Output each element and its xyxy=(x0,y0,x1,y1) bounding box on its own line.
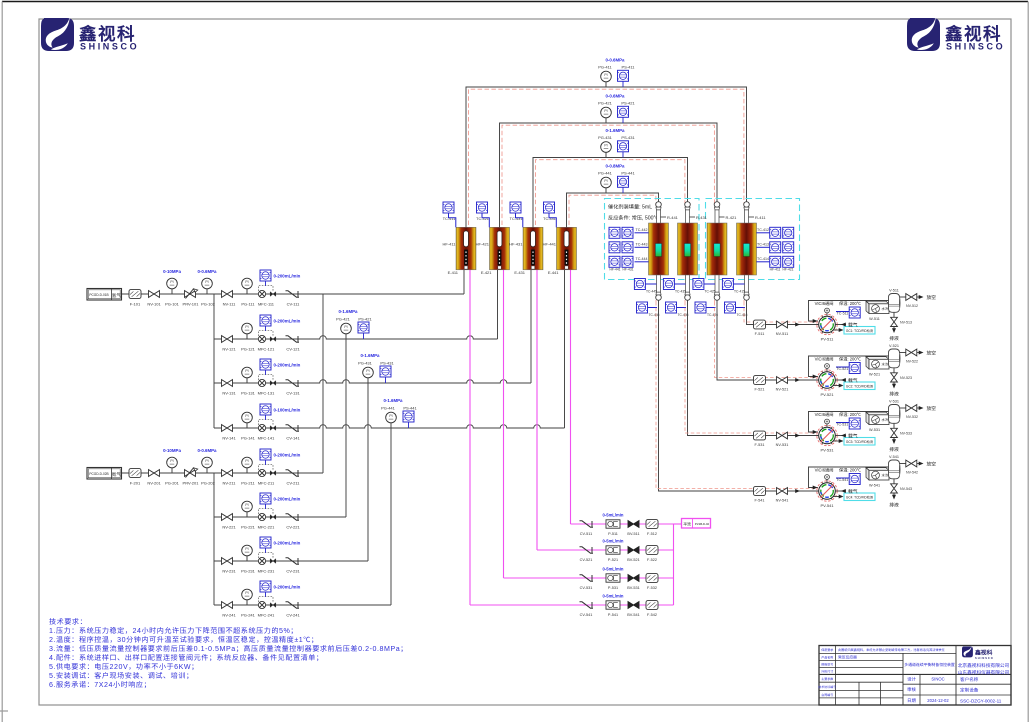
border frame xyxy=(2,1,1028,3)
wire branch 121 xyxy=(214,336,498,339)
svg-text:E-431: E-431 xyxy=(514,270,525,276)
MFC-141 mass flow controller xyxy=(258,420,275,432)
wire transfer loop E-411 to R-411 xyxy=(466,87,747,227)
flange bottom R-441 xyxy=(656,292,662,300)
gauge PG-131 xyxy=(246,378,248,383)
reactor R-421 furnace body xyxy=(707,223,727,275)
svg-text:0-200mL/min: 0-200mL/min xyxy=(274,497,301,503)
svg-text:MFC-141: MFC-141 xyxy=(258,436,275,442)
svg-text:TC-442: TC-442 xyxy=(636,228,648,233)
controller icon FIC-231 xyxy=(260,537,271,548)
gauge PG-102 xyxy=(206,289,208,294)
label R-421 xyxy=(719,216,725,218)
regulator PRV-201 xyxy=(185,468,198,478)
svg-text:0-200mL/min: 0-200mL/min xyxy=(274,274,301,280)
condenser W-541 xyxy=(866,468,889,480)
svg-text:PCGD-D-02B: PCGD-D-02B xyxy=(89,471,108,476)
svg-text:VICI6通阀: VICI6通阀 xyxy=(815,357,834,363)
filter F-531 xyxy=(754,431,766,440)
controller icon FIC-131 xyxy=(260,359,271,370)
flow arrow xyxy=(795,378,800,382)
valve NV-241 xyxy=(222,602,233,609)
svg-text:F-522: F-522 xyxy=(647,558,657,563)
svg-text:TC-414: TC-414 xyxy=(757,257,769,262)
svg-text:HF-431: HF-431 xyxy=(623,267,634,272)
TC icon stack left xyxy=(609,227,620,238)
svg-text:PG-121: PG-121 xyxy=(241,347,256,353)
svg-text:审核: 审核 xyxy=(907,687,916,693)
flow arrow xyxy=(795,489,800,493)
svg-text:GC4: TCD/FID检测: GC4: TCD/FID检测 xyxy=(846,494,873,499)
valve NV-533 drain xyxy=(893,423,895,428)
svg-text:0-1.6MPa: 0-1.6MPa xyxy=(605,128,625,134)
svg-text:PG-241: PG-241 xyxy=(241,613,256,619)
svg-text:MFC-221: MFC-221 xyxy=(258,525,275,531)
svg-text:TC-413: TC-413 xyxy=(757,242,769,247)
label R-411 xyxy=(749,216,755,218)
title block logo xyxy=(962,645,973,657)
thermocouple icon TC-416 xyxy=(725,302,736,313)
logo top-right xyxy=(907,14,940,51)
svg-text:F-542: F-542 xyxy=(647,613,657,618)
pump P-531 xyxy=(606,574,620,582)
svg-text:0-10MPa: 0-10MPa xyxy=(163,448,181,454)
reactor R-441 furnace body xyxy=(649,223,669,275)
svg-text:排液: 排液 xyxy=(889,446,899,453)
svg-text:0-1.6MPa: 0-1.6MPa xyxy=(383,398,403,404)
svg-text:R-441: R-441 xyxy=(667,215,679,221)
svg-text:R-431: R-431 xyxy=(696,215,708,221)
valve NV-521 xyxy=(777,377,788,384)
thermocouple icon TC-446 xyxy=(637,302,648,313)
wire effluent 441 to GC4 xyxy=(659,300,819,491)
svg-text:水冷: 水冷 xyxy=(882,417,889,422)
svg-text:0-200mL/min: 0-200mL/min xyxy=(274,585,301,591)
svg-text:W-511: W-511 xyxy=(869,317,880,322)
svg-text:CV-131: CV-131 xyxy=(286,391,300,397)
svg-text:MFC-211: MFC-211 xyxy=(258,481,275,487)
temperature controller TC-411 xyxy=(443,202,454,213)
svg-text:TC-443: TC-443 xyxy=(636,242,648,247)
pressure switch PS-431 on branch xyxy=(380,366,391,377)
svg-text:PV-541: PV-541 xyxy=(820,503,834,509)
svg-text:BV-511: BV-511 xyxy=(627,532,639,537)
catalyst zone box left xyxy=(605,199,700,280)
svg-text:水冷: 水冷 xyxy=(882,362,889,367)
svg-text:0-0.8MPa: 0-0.8MPa xyxy=(605,164,625,170)
svg-text:NV-211: NV-211 xyxy=(222,481,236,487)
valve BV-521 xyxy=(628,547,639,554)
carrier gas in xyxy=(835,324,846,326)
flange top R-431 xyxy=(685,202,691,210)
six-port valve PV-521 xyxy=(817,364,837,391)
MFC-211 mass flow controller xyxy=(258,465,275,477)
wire gas riser to E-431 xyxy=(530,270,532,383)
svg-text:主要参数: 主要参数 xyxy=(821,677,833,681)
title block table xyxy=(819,646,1011,706)
thermocouple icon TC-425 xyxy=(693,279,704,290)
wire branch 231 xyxy=(214,560,368,562)
svg-text:保密要求: 保密要求 xyxy=(821,648,833,652)
gauge PG-211 xyxy=(246,468,248,473)
svg-text:0-5mL/min: 0-5mL/min xyxy=(603,567,624,573)
svg-text:VICI6通阀: VICI6通阀 xyxy=(815,301,834,307)
svg-text:SHINSCO: SHINSCO xyxy=(80,40,139,53)
svg-text:NV-513: NV-513 xyxy=(900,321,912,326)
svg-text:氢气: 氢气 xyxy=(112,293,122,299)
svg-text:产品名称: 产品名称 xyxy=(821,656,833,660)
pump source box PLSB-D-02 xyxy=(682,519,711,529)
wire transfer loop E-421 to R-421 xyxy=(500,123,718,227)
svg-text:载气: 载气 xyxy=(848,488,858,495)
wire pump line 2 xyxy=(537,549,674,551)
svg-text:客户名称: 客户名称 xyxy=(960,677,979,683)
wire gas riser to E-421 xyxy=(497,270,499,339)
svg-text:CV-111: CV-111 xyxy=(287,302,301,308)
flange bottom R-431 xyxy=(685,292,691,300)
svg-text:CV-221: CV-221 xyxy=(286,525,300,531)
thermocouple icon TC-436 xyxy=(666,302,677,313)
svg-text:PLSB-D-02: PLSB-D-02 xyxy=(695,522,710,526)
svg-text:常压反应器: 常压反应器 xyxy=(838,655,857,661)
svg-text:保温: 200℃: 保温: 200℃ xyxy=(839,412,861,418)
filter F-532 xyxy=(646,574,658,583)
svg-text:2024-12-02: 2024-12-02 xyxy=(927,698,949,704)
wire pump line 1 xyxy=(571,523,674,525)
valve NV-531 xyxy=(777,432,788,439)
svg-text:0-0.6MPa: 0-0.6MPa xyxy=(197,448,217,454)
svg-text:山东鑫视科仪器有限公司: 山东鑫视科仪器有限公司 xyxy=(958,670,1010,676)
controller icon FIC-241 xyxy=(260,581,271,592)
svg-text:PG-111: PG-111 xyxy=(241,302,255,308)
svg-text:PG-441: PG-441 xyxy=(381,406,396,412)
svg-text:日期: 日期 xyxy=(907,698,916,704)
svg-text:HF-421: HF-421 xyxy=(783,267,794,272)
svg-text:MFC-241: MFC-241 xyxy=(258,613,275,619)
svg-text:E-441: E-441 xyxy=(548,270,559,276)
MFC-241 mass flow controller xyxy=(258,597,275,609)
controller icon FIC-221 xyxy=(260,493,271,504)
wire pump line 3 xyxy=(504,577,674,579)
GC3 detector label xyxy=(834,440,841,442)
svg-text:MFC-111: MFC-111 xyxy=(258,302,275,308)
wire riser x=391 xyxy=(390,428,392,605)
svg-text:PG-201: PG-201 xyxy=(165,481,180,487)
reactor R-431 furnace body xyxy=(678,223,698,275)
svg-text:CV-511: CV-511 xyxy=(580,532,592,537)
reactor R-441 tube xyxy=(657,203,661,299)
logo top-left xyxy=(41,14,74,51)
valve BV-511 xyxy=(628,521,639,528)
svg-text:VICI6通阀: VICI6通阀 xyxy=(815,412,834,418)
check valve CV-131 xyxy=(286,380,300,386)
svg-text:TC-412: TC-412 xyxy=(757,228,769,233)
svg-text:BV-521: BV-521 xyxy=(627,558,639,563)
valve NV-541 xyxy=(777,488,788,495)
svg-text:BV-541: BV-541 xyxy=(627,613,639,618)
svg-text:0-0.6MPa: 0-0.6MPa xyxy=(197,269,217,275)
valve BV-531 xyxy=(628,575,639,582)
thermocouple icon TC-445 xyxy=(634,279,645,290)
svg-text:0-5mL/min: 0-5mL/min xyxy=(603,513,624,519)
svg-text:NV-523: NV-523 xyxy=(900,376,912,381)
valve NV-522 vent xyxy=(899,352,906,354)
source box PCGD-D-01B hydrogen xyxy=(87,289,122,301)
gauge PG-421 on branch xyxy=(345,334,347,339)
svg-text:TC-416: TC-416 xyxy=(737,312,748,317)
svg-text:载气: 载气 xyxy=(848,432,858,439)
svg-text:NV-231: NV-231 xyxy=(222,569,236,575)
pressure switch PS-441 loop xyxy=(618,176,629,187)
controller icon FIC-141 xyxy=(260,404,271,415)
pressure switch PS-441 on branch xyxy=(403,411,414,422)
flange bottom R-421 xyxy=(714,292,720,300)
svg-text:HF-431: HF-431 xyxy=(509,242,523,248)
svg-text:W-531: W-531 xyxy=(869,428,880,433)
gauge PG-431 on branch xyxy=(367,378,369,383)
wire liquid feed riser E-431 xyxy=(536,270,538,550)
svg-text:PS-431: PS-431 xyxy=(380,361,394,367)
controller TC-521 xyxy=(849,363,860,374)
svg-text:TC-436: TC-436 xyxy=(678,312,689,317)
gauge PG-241 xyxy=(246,600,248,605)
svg-text:NV-532: NV-532 xyxy=(906,415,918,420)
valve NV-513 drain xyxy=(893,312,895,317)
filter F-512 xyxy=(646,520,658,529)
flange top R-421 xyxy=(714,202,720,210)
valve NV-101 xyxy=(149,291,160,298)
node manifold B xyxy=(213,473,215,605)
pump P-511 xyxy=(606,520,620,528)
valve NV-512 vent xyxy=(899,296,906,298)
svg-text:合同编号: 合同编号 xyxy=(821,693,833,697)
svg-text:6.服务承诺：7X24小时响应；: 6.服务承诺：7X24小时响应； xyxy=(49,680,151,690)
svg-text:CV-521: CV-521 xyxy=(580,558,593,563)
svg-text:保温: 200℃: 保温: 200℃ xyxy=(839,357,861,363)
svg-text:PG-231: PG-231 xyxy=(241,569,256,575)
svg-text:0-10MPa: 0-10MPa xyxy=(163,269,181,275)
svg-text:GC2: TCD/FID检测: GC2: TCD/FID检测 xyxy=(846,383,873,388)
svg-text:PRV-201: PRV-201 xyxy=(183,481,200,487)
svg-text:0-5mL/min: 0-5mL/min xyxy=(603,539,624,545)
svg-text:F-511: F-511 xyxy=(755,332,765,337)
svg-text:NV-512: NV-512 xyxy=(906,304,918,309)
svg-text:TC-444: TC-444 xyxy=(636,257,648,262)
svg-text:NV-511: NV-511 xyxy=(776,332,788,337)
furnace HF-421 / evaporator E-421 xyxy=(490,227,510,269)
wire transfer loop E-441 to R-441 xyxy=(567,193,659,227)
svg-text:TC-541: TC-541 xyxy=(836,478,848,483)
svg-text:NV-131: NV-131 xyxy=(222,391,236,397)
svg-text:F-512: F-512 xyxy=(647,532,657,537)
pressure switch PS-421 loop xyxy=(618,106,629,117)
svg-text:PG-202: PG-202 xyxy=(201,481,216,487)
pressure switch PS-411 loop xyxy=(618,70,629,81)
wire branch 221 xyxy=(214,516,346,518)
temperature controller TC-431 xyxy=(510,202,521,213)
svg-text:0-200mL/min: 0-200mL/min xyxy=(274,541,301,547)
condenser W-511 xyxy=(866,301,889,313)
gauge PG-201 xyxy=(171,468,173,473)
svg-text:NV-541: NV-541 xyxy=(776,499,789,504)
pump P-521 xyxy=(606,546,620,554)
check valve CV-221 xyxy=(286,514,300,520)
check valve CV-211 xyxy=(286,470,300,476)
svg-text:PS-441: PS-441 xyxy=(403,406,417,412)
valve NV-201 xyxy=(149,470,160,477)
svg-text:载气: 载气 xyxy=(848,377,858,384)
valve NV-111 xyxy=(222,291,233,298)
check valve CV-111 xyxy=(286,291,300,297)
wire liquid feed riser E-421 xyxy=(503,270,505,578)
svg-text:E-411: E-411 xyxy=(448,270,459,276)
svg-text:0-1.6MPa: 0-1.6MPa xyxy=(360,353,380,359)
svg-text:排液: 排液 xyxy=(889,335,899,342)
svg-text:PS-411: PS-411 xyxy=(621,65,635,71)
svg-text:MFC-231: MFC-231 xyxy=(258,569,275,575)
svg-text:PG-221: PG-221 xyxy=(241,525,256,531)
svg-text:V-531: V-531 xyxy=(889,400,899,405)
svg-text:GC1: TCD/FID检测: GC1: TCD/FID检测 xyxy=(846,328,873,333)
svg-text:放空: 放空 xyxy=(927,294,937,301)
controller icon FIC-121 xyxy=(260,315,271,326)
svg-text:PG-141: PG-141 xyxy=(241,436,256,442)
wire gas riser to E-441 xyxy=(564,270,566,428)
svg-text:放空: 放空 xyxy=(927,405,937,412)
catalyst zone box right xyxy=(706,199,800,280)
svg-text:CV-121: CV-121 xyxy=(286,347,300,353)
svg-text:PRV-101: PRV-101 xyxy=(183,302,200,308)
svg-text:BV-531: BV-531 xyxy=(627,586,639,591)
separator V-541 xyxy=(889,460,901,479)
check valve CV-541 xyxy=(580,602,594,608)
temperature controller TC-441 xyxy=(544,202,555,213)
filter F-541 xyxy=(754,487,766,496)
pressure switch PS-431 loop xyxy=(618,141,629,152)
svg-text:TC-425: TC-425 xyxy=(705,288,716,293)
svg-text:PV-511: PV-511 xyxy=(821,337,835,343)
svg-text:P-541: P-541 xyxy=(608,613,618,618)
svg-text:PS-421: PS-421 xyxy=(358,317,372,323)
svg-text:载气: 载气 xyxy=(848,321,858,328)
valve NV-511 xyxy=(777,321,788,328)
svg-text:W-541: W-541 xyxy=(869,484,880,489)
svg-text:GC3: TCD/FID检测: GC3: TCD/FID检测 xyxy=(846,439,873,444)
separator V-511 xyxy=(889,294,901,313)
gauge PG-101 xyxy=(171,289,173,294)
wire branch 211 xyxy=(214,472,323,474)
svg-text:保温: 200℃: 保温: 200℃ xyxy=(839,301,861,307)
svg-text:PG-421: PG-421 xyxy=(336,317,351,323)
MFC-131 mass flow controller xyxy=(258,375,275,387)
wire pump line 4 xyxy=(470,604,674,606)
sampling loop pipe GC2 xyxy=(809,356,889,377)
gauge PG-431 loop xyxy=(605,152,607,157)
svg-text:TC-426: TC-426 xyxy=(707,312,718,317)
svg-text:CV-211: CV-211 xyxy=(286,481,300,487)
MFC-221 mass flow controller xyxy=(258,509,275,521)
svg-text:NV-121: NV-121 xyxy=(222,347,236,353)
svg-text:0-200mL/min: 0-200mL/min xyxy=(274,363,301,369)
svg-text:0-5mL/min: 0-5mL/min xyxy=(603,594,624,600)
svg-text:放空: 放空 xyxy=(927,350,937,357)
check valve CV-141 xyxy=(286,425,300,431)
wire inlet line 1 xyxy=(122,293,223,295)
wire branch 241 xyxy=(214,604,391,606)
carrier gas in xyxy=(835,435,846,437)
filter F-101 xyxy=(129,290,141,299)
filter F-201 xyxy=(129,469,141,478)
svg-text:NV-543: NV-543 xyxy=(900,487,912,492)
svg-text:CV-231: CV-231 xyxy=(286,569,300,575)
wire liquid feed riser E-411 xyxy=(469,270,471,605)
reactor R-411 furnace body xyxy=(737,223,757,275)
svg-text:HF-441: HF-441 xyxy=(543,242,557,248)
svg-text:P-521: P-521 xyxy=(608,558,618,563)
svg-text:MFC-131: MFC-131 xyxy=(258,391,275,397)
sampling loop pipe GC1 xyxy=(809,301,889,322)
svg-text:北京鑫视科科技有限公司: 北京鑫视科科技有限公司 xyxy=(958,663,1010,669)
wire branch 141 xyxy=(214,425,565,428)
svg-text:SHINSCO: SHINSCO xyxy=(946,40,1005,53)
svg-text:0-200mL/min: 0-200mL/min xyxy=(274,319,301,325)
valve NV-141 xyxy=(222,425,233,432)
svg-text:设计: 设计 xyxy=(907,677,916,683)
check valve CV-511 xyxy=(580,521,594,527)
filter F-522 xyxy=(646,546,658,555)
svg-text:SINOC: SINOC xyxy=(931,677,944,683)
svg-text:TC-446: TC-446 xyxy=(649,312,660,317)
svg-text:CV-141: CV-141 xyxy=(286,436,300,442)
wire branch 111 xyxy=(214,293,464,295)
source box PCGD-D-02B nitrogen xyxy=(87,468,122,480)
valve NV-542 vent xyxy=(899,463,906,465)
svg-text:V-541: V-541 xyxy=(889,455,899,460)
valve NV-131 xyxy=(222,380,233,387)
svg-text:MFC-121: MFC-121 xyxy=(258,347,275,353)
MFC-121 mass flow controller xyxy=(258,331,275,343)
svg-text:CV-541: CV-541 xyxy=(580,613,593,618)
flange top R-411 xyxy=(744,202,750,210)
flow arrow xyxy=(795,323,800,327)
sampling loop pipe GC4 xyxy=(809,467,889,488)
flange bottom R-411 xyxy=(744,292,750,300)
gauge PG-231 xyxy=(246,556,248,561)
svg-text:PG-431: PG-431 xyxy=(598,135,613,141)
thermocouple icon TC-426 xyxy=(695,302,706,313)
svg-text:NV-531: NV-531 xyxy=(776,443,789,448)
condenser W-521 xyxy=(866,357,889,369)
pressure switch PS-421 on branch xyxy=(358,322,369,333)
svg-text:PV-521: PV-521 xyxy=(820,392,834,398)
six-port valve PV-511 xyxy=(817,308,837,335)
svg-text:0-0.6MPa: 0-0.6MPa xyxy=(605,58,625,64)
wire riser x=346 xyxy=(345,339,347,517)
svg-text:HF-411: HF-411 xyxy=(770,267,781,272)
GC1 detector label xyxy=(834,329,841,331)
controller TC-511 xyxy=(849,307,860,318)
svg-text:此图纸归属鑫视科，未经允许禁止复制或传给第三方，违者将追究其: 此图纸归属鑫视科，未经允许禁止复制或传给第三方，违者将追究其法律责任 xyxy=(838,647,946,652)
check valve CV-241 xyxy=(286,602,300,608)
temperature controller TC-421 xyxy=(477,202,488,213)
check valve CV-531 xyxy=(580,575,594,581)
svg-text:V-511: V-511 xyxy=(889,289,899,294)
valve NV-121 xyxy=(222,336,233,343)
svg-text:HF-421: HF-421 xyxy=(476,242,490,248)
controller TC-541 xyxy=(849,474,860,485)
svg-text:P-511: P-511 xyxy=(608,532,618,537)
MFC-231 mass flow controller xyxy=(258,553,275,565)
